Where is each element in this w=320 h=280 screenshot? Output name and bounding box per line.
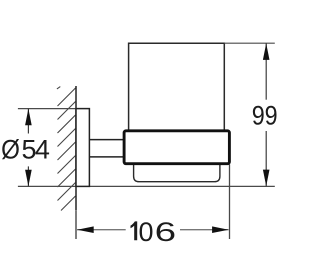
arrow down (54) <box>25 170 32 187</box>
dim line 106 <box>77 229 126 231</box>
svg-text:99: 99 <box>252 101 278 131</box>
extension line: 106 left <box>75 211 77 239</box>
glass lower part <box>134 160 220 182</box>
arrow right (106) <box>212 226 229 233</box>
mounting plate <box>76 109 89 187</box>
arm bottom line <box>89 156 123 158</box>
extension line: 99 top <box>224 42 274 44</box>
arrow up (54) <box>25 109 32 126</box>
svg-text:Ø: Ø <box>1 134 20 164</box>
dim line diameter-54 <box>27 109 29 134</box>
arrow down (99) <box>263 170 270 187</box>
arrow left (106) <box>77 226 94 233</box>
svg-text:0: 0 <box>139 217 154 247</box>
arm top line <box>89 139 123 141</box>
dim line 99 <box>265 43 267 99</box>
glass upper part <box>129 43 225 131</box>
extension line: 106 right <box>229 165 231 240</box>
svg-text:54: 54 <box>22 134 50 164</box>
svg-text:6: 6 <box>155 217 177 247</box>
holder ring <box>124 131 229 164</box>
wall surface line <box>75 86 77 211</box>
extension line: bottom shared <box>18 185 275 187</box>
arrow up (99) <box>263 43 270 60</box>
wall hatching <box>57 87 76 211</box>
extension line: diameter top <box>18 108 76 110</box>
label 106 digit 1 <box>131 221 138 240</box>
